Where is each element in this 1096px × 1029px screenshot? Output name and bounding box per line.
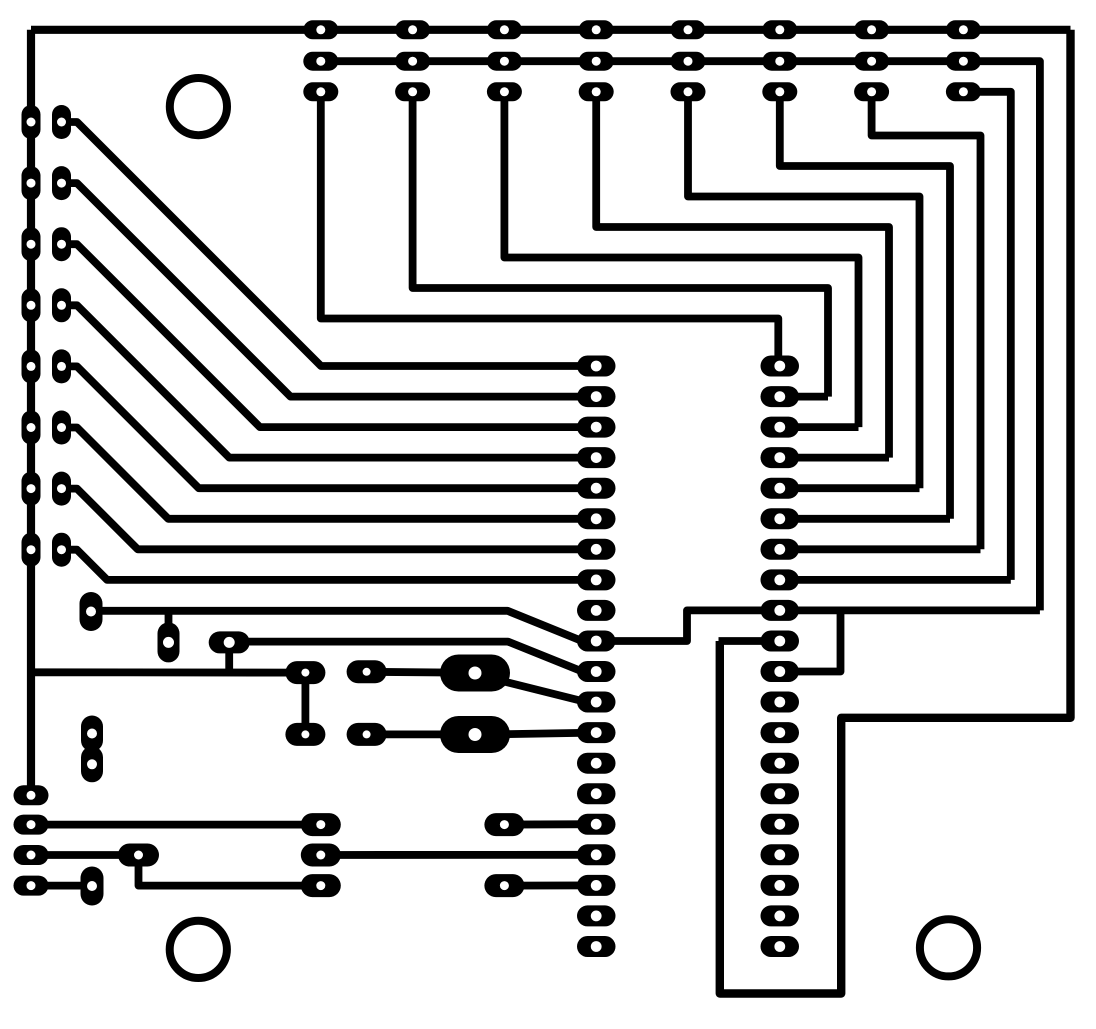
pad: left header column 1 pin 5: [22, 349, 41, 383]
wire: fuse F2 horizontal into IC pad row 13: [505, 733, 596, 735]
pad: top connector row 1 pin 3: [487, 20, 522, 39]
wire: horizontal from left rail to pad P5a: [31, 668, 305, 676]
wire: top row-3 pad 3 stair trace to right connector row 3: [504, 92, 858, 427]
pad: IC left column row 2: [577, 386, 616, 407]
wire: left header pin 8 diagonal to IC pad row 8: [62, 550, 597, 580]
wire: right connector row 2 stub: [780, 393, 828, 401]
pad: left header column 1 pin 8: [22, 533, 41, 567]
mounting hole bottom-left: [170, 921, 227, 978]
wire: left rail vertical (net GND): [27, 30, 35, 796]
wire: top row-3 pad 4 stair trace to right connector row 4: [596, 92, 889, 458]
wire: pad P8a into IC pad row 16: [504, 820, 596, 828]
wire: pad G to pad H: [31, 851, 139, 859]
pad: right connector row 18: [761, 875, 800, 896]
pad A (via): [80, 592, 103, 631]
pad J (via): [81, 867, 104, 906]
pad: top connector row 3 pin 2: [395, 82, 430, 101]
pad: IC left column row 7: [577, 539, 616, 560]
pad: left header column 1 pin 2: [22, 166, 41, 200]
pad: left header column 2 pin 4: [52, 288, 71, 322]
pad: top connector row 2 pin 7: [854, 52, 889, 71]
pad: right connector row 19: [761, 905, 800, 926]
wire: top row-3 pad 6 stair trace to right connector row 6: [780, 92, 950, 519]
wire: vertical between pads P5a and P5b: [301, 673, 309, 735]
pad: IC left column row 4: [577, 447, 616, 468]
pad: left header column 2 pin 8: [52, 533, 71, 567]
pad: IC left column row 20: [577, 936, 616, 957]
pad: left header column 1 pin 4: [22, 288, 41, 322]
pad: left header column 2 pin 5: [52, 349, 71, 383]
wire: fuse F1 diagonal into IC pad row 12: [500, 681, 596, 703]
wire: left header pin 6 diagonal to IC pad row 6: [62, 428, 597, 519]
wire: right edge + lower box outline (net GND): [720, 30, 1071, 994]
wire: pad C stub down to y672 line: [225, 642, 233, 672]
pad: left header column 1 pin 3: [22, 227, 41, 261]
pad: left header column 2 pin 7: [52, 472, 71, 506]
wire: top row-3 pad 2 stair trace to right connector row 2: [413, 92, 828, 397]
pad: top connector row 2 pin 1: [303, 52, 338, 71]
pad: top connector row 3 pin 7: [854, 82, 889, 101]
pad: top connector row 2 pin 6: [762, 52, 797, 71]
pad: IC left column row 15: [577, 783, 616, 804]
wire: right connector row 6 stub: [780, 515, 950, 523]
pad P7b: [301, 844, 341, 867]
pad: IC left column row 1: [577, 356, 616, 377]
pad: top connector row 3 pin 1: [303, 82, 338, 101]
wire: top row-3 pad 8 trace to right connector row 8: [963, 92, 1010, 580]
pad: right connector row 20: [761, 936, 800, 957]
wire: left header pin 3 diagonal to IC pad row 3: [62, 244, 597, 427]
pad P5b: [285, 723, 325, 746]
pad: IC left column row 12: [577, 692, 616, 713]
wire: pad B stub up to row 9 line: [165, 611, 173, 643]
pad: right connector row 9: [761, 600, 800, 621]
pad: top connector row 2 pin 3: [487, 52, 522, 71]
pad C (via): [209, 631, 250, 653]
pad: IC left column row 19: [577, 905, 616, 926]
pad D2 (jumper): [81, 746, 103, 782]
wire: drop from row 9 bus to right connector row 11: [780, 610, 841, 671]
wire: right connector row 4 stub: [780, 454, 889, 462]
wire: top row-3 pad 1 stair trace to right connector row 1: [321, 92, 779, 366]
pad: IC left column row 10: [577, 631, 616, 652]
pad: right connector row 4: [761, 447, 800, 468]
pad I: [14, 876, 49, 896]
pad: right connector row 8: [761, 569, 800, 590]
wire: left header pin 7 diagonal to IC pad row 7: [62, 489, 597, 550]
pad: right connector row 2: [761, 386, 800, 407]
pad P6a: [347, 660, 387, 683]
pad P8c: [484, 874, 524, 897]
pad: top connector row 2 pin 8: [946, 52, 981, 71]
wire: right connector row 7 stub: [780, 545, 981, 553]
wire: top bus row 1 horizontal (net GND): [31, 26, 1071, 34]
pad P7a: [301, 813, 341, 836]
wire: pad P7b long horizontal into IC pad row 17: [321, 851, 596, 859]
wire: right connector row 8 stub: [780, 576, 1011, 584]
pad: right connector row 15: [761, 783, 800, 804]
pad D1 (jumper): [81, 716, 103, 752]
pad: right connector row 14: [761, 753, 800, 774]
pad: IC left column row 13: [577, 722, 616, 743]
wire: top bus row 2 horizontal + right drop to row 9: [321, 61, 1040, 610]
pad P7c: [301, 874, 341, 897]
pad: IC left column row 5: [577, 478, 616, 499]
pad: top connector row 2 pin 4: [579, 52, 614, 71]
pad G: [14, 845, 49, 865]
pad: IC left column row 18: [577, 875, 616, 896]
wire: pad P6a to fuse F1: [367, 668, 460, 677]
pad: IC left column row 11: [577, 661, 616, 682]
pad: IC left column row 14: [577, 753, 616, 774]
pad: IC left column row 9: [577, 600, 616, 621]
pad: right connector row 16: [761, 814, 800, 835]
pad: top connector row 2 pin 2: [395, 52, 430, 71]
wire: pad H down-right to pad P7c: [139, 855, 321, 886]
pad: left header column 2 pin 6: [52, 411, 71, 445]
pad P6b: [347, 723, 387, 746]
mounting hole bottom-right: [920, 919, 977, 976]
wire: top row-3 pad 5 stair trace to right connector row 5: [688, 92, 920, 488]
pad: IC left column row 6: [577, 508, 616, 529]
pad: right connector row 11: [761, 661, 800, 682]
pad: right connector row 6: [761, 508, 800, 529]
pad H: [118, 844, 159, 867]
wire: left header pin 1 diagonal to IC pad row 1: [62, 122, 597, 366]
pad: IC left column row 17: [577, 844, 616, 865]
wire: left header pin 2 diagonal to IC pad row 2: [62, 183, 597, 397]
pad: top connector row 1 pin 5: [671, 20, 706, 39]
mounting hole top-left: [170, 78, 227, 135]
pad: IC left column row 16: [577, 814, 616, 835]
pad: left header column 1 pin 7: [22, 472, 41, 506]
pad: right connector row 5: [761, 478, 800, 499]
wire: right connector row 3 stub: [780, 423, 859, 431]
fuse pad F1 (large oval): [440, 655, 510, 692]
pad: right connector row 3: [761, 417, 800, 438]
wire: left header pin 5 diagonal to IC pad row 5: [62, 366, 597, 488]
pad P5a: [285, 661, 325, 684]
pad: top connector row 3 pin 4: [579, 82, 614, 101]
pad: IC left column row 3: [577, 417, 616, 438]
pad: top connector row 1 pin 8: [946, 20, 981, 39]
pad F: [14, 815, 49, 835]
fuse pad F2 (large oval): [440, 716, 510, 753]
pad: right connector row 10: [761, 631, 800, 652]
wire: pad A long horizontal into IC pad row 10: [91, 611, 596, 641]
pad: IC left column row 8: [577, 569, 616, 590]
pad: top connector row 1 pin 2: [395, 20, 430, 39]
pad: top connector row 1 pin 7: [854, 20, 889, 39]
pad E: [14, 785, 49, 805]
pad: top connector row 3 pin 5: [671, 82, 706, 101]
wire: top row-3 pad 7 stair trace to right connector row 7: [872, 92, 981, 550]
pad: top connector row 2 pin 5: [671, 52, 706, 71]
wire: pad P6b to fuse F2: [367, 731, 460, 739]
wire: pad P8c into IC pad row 18: [504, 882, 596, 890]
wire: right connector row 5 stub: [780, 484, 920, 492]
pad: left header column 1 pin 1: [22, 105, 41, 139]
wire: pad C horizontal into IC pad row 11: [229, 642, 596, 672]
pad: left header column 2 pin 1: [52, 105, 71, 139]
pad: right connector row 13: [761, 722, 800, 743]
wire: pad I to pad J: [31, 882, 92, 890]
pad: top connector row 1 pin 4: [579, 20, 614, 39]
wire: pad F long horizontal to pad P7a: [31, 821, 321, 829]
pad: top connector row 1 pin 6: [762, 20, 797, 39]
wire: IC row 10 step up to right connector row 9 bus: [596, 610, 1040, 641]
pad: left header column 2 pin 3: [52, 227, 71, 261]
pad P8a: [484, 813, 524, 836]
pad: top connector row 3 pin 6: [762, 82, 797, 101]
pad: top connector row 3 pin 8: [946, 82, 981, 101]
pad: top connector row 1 pin 1: [303, 20, 338, 39]
wire: box stub to connector pad row 10 right: [719, 637, 780, 645]
pad: right connector row 1: [761, 356, 800, 377]
wire: left header pin 4 diagonal to IC pad row 4: [62, 305, 597, 457]
pad: right connector row 7: [761, 539, 800, 560]
pad: left header column 1 pin 6: [22, 411, 41, 445]
pad: top connector row 3 pin 3: [487, 82, 522, 101]
pad: right connector row 17: [761, 844, 800, 865]
pad: right connector row 12: [761, 692, 800, 713]
pad: left header column 2 pin 2: [52, 166, 71, 200]
pad B (via): [158, 622, 180, 662]
